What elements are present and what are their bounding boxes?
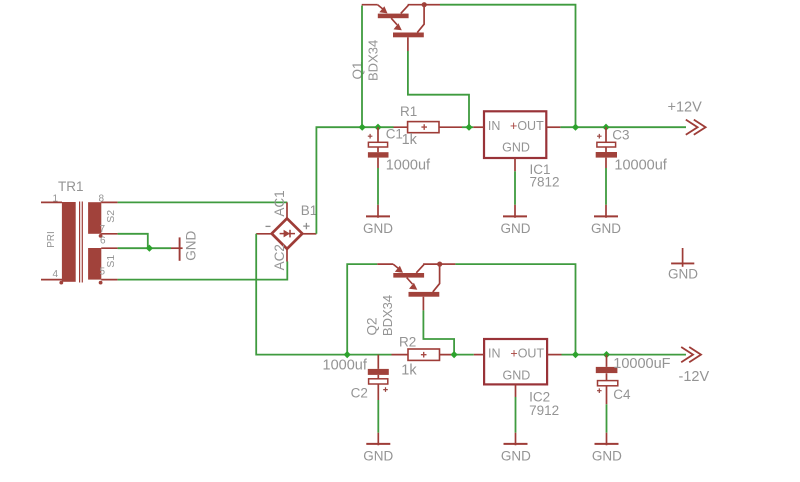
capacitor C3 (596, 127, 668, 173)
svg-text:10000uF: 10000uF (613, 356, 670, 372)
svg-text:GND: GND (363, 221, 393, 236)
C1 plus (368, 134, 373, 139)
label plus (303, 223, 309, 229)
C4 plate negative (596, 367, 618, 373)
svg-text:1000uf: 1000uf (386, 157, 431, 173)
wire Q2 base to R2 right node (423, 310, 454, 354)
wire C4 to ground (606, 404, 608, 432)
svg-text:TR1: TR1 (58, 179, 84, 194)
ground GND below C2 (363, 433, 393, 464)
svg-text:+OUT: +OUT (510, 119, 544, 133)
svg-text:7912: 7912 (529, 403, 559, 418)
svg-text:GND: GND (363, 448, 393, 463)
B1 internal diode (280, 233, 295, 235)
bridge rectifier B1 (256, 190, 317, 270)
Q1 collector T2 (417, 6, 424, 33)
transistor Q2 BDX34 (365, 262, 456, 337)
C2 plus (383, 387, 388, 392)
svg-text:+OUT: +OUT (510, 346, 544, 360)
wire Q2 collector run (455, 264, 575, 355)
junction IC1 out (572, 124, 579, 131)
TR1 pin 1 (41, 201, 62, 203)
capacitor C2 (323, 355, 389, 401)
C2 plate negative (368, 369, 389, 375)
Q2 emitter arrow (393, 264, 399, 269)
Q2 internal arrow T2 (407, 278, 413, 285)
svg-text:C1: C1 (386, 126, 403, 141)
C1 plate negative (368, 152, 389, 157)
TR1 core (80, 202, 83, 283)
svg-text:AC1: AC1 (272, 190, 287, 216)
wire pin5 to bridge AC2 (118, 262, 288, 280)
Q1 base bar T2 (393, 33, 424, 38)
B1 pin AC1 (286, 202, 288, 219)
TR1 pin 4 (41, 279, 62, 281)
svg-text:BDX34: BDX34 (380, 295, 395, 336)
svg-text:4: 4 (53, 269, 59, 280)
wire Q1 emitter to +rail (361, 6, 363, 128)
ground GND below IC2 (501, 433, 531, 464)
junction IC2 out (572, 351, 579, 358)
TR1 pin 6 (101, 247, 117, 249)
svg-text:IN: IN (488, 119, 501, 133)
svg-text:GND: GND (501, 221, 531, 236)
svg-text:GND: GND (668, 266, 698, 281)
C2 plate positive (369, 379, 388, 384)
wire C2 to ground (377, 400, 379, 433)
wire pin6 to GND (118, 247, 171, 249)
svg-text:GND: GND (501, 448, 531, 463)
TR1 secondary winding S1 (88, 248, 101, 280)
svg-text:BDX34: BDX34 (366, 40, 381, 81)
junction C3 rail (602, 124, 609, 131)
junction Q1 emitter rail (359, 124, 366, 131)
Q2 base bar T1 (393, 273, 424, 278)
wire IC2 gnd (515, 397, 517, 433)
TR1 secondary winding S2 (88, 202, 101, 234)
capacitor C1 (368, 126, 431, 173)
junction C1 rail (374, 124, 381, 131)
polarity dot primary (59, 281, 63, 285)
wire Q1 base to R1 right node (408, 51, 469, 127)
ground GND center tap (171, 231, 198, 261)
TR1 primary winding (62, 202, 76, 282)
ground GND below IC1 (501, 205, 531, 236)
svg-text:C3: C3 (612, 128, 629, 143)
Q2 collector T2 (433, 265, 440, 292)
svg-text:S2: S2 (105, 210, 117, 223)
Q2 base bar T2 (409, 292, 440, 297)
svg-text:6: 6 (100, 236, 106, 247)
IC1 pin OUT (546, 126, 560, 128)
svg-text:R2: R2 (399, 335, 416, 350)
svg-text:PRI: PRI (46, 231, 57, 248)
Q1 collector pin (424, 4, 440, 6)
wire pin7 to center tap (118, 234, 148, 248)
junction C4 rail (603, 351, 610, 358)
junction R1 right (465, 124, 472, 131)
C3 plate positive (597, 142, 616, 147)
wire +rail IC1 to C3 to arrow (560, 126, 686, 128)
wire -rail IC2 to C4 to arrow (562, 354, 687, 356)
junction R2 right (451, 351, 458, 358)
svg-text:S1: S1 (105, 255, 117, 268)
IC2 pin IN (474, 354, 484, 356)
svg-text:7: 7 (100, 224, 106, 235)
resistor R2 (392, 335, 454, 379)
label minus (266, 225, 271, 227)
svg-text:1000uf: 1000uf (323, 357, 368, 373)
wire +rail R1 to IC1 (462, 126, 473, 128)
wire Q1 collector top run (440, 5, 576, 128)
wire C3 to ground (605, 168, 607, 205)
C4 plate positive (598, 381, 618, 386)
C4 plus (597, 388, 602, 393)
svg-text:GND: GND (503, 368, 531, 382)
transformer TR1 (41, 179, 118, 285)
IC1 pin IN (473, 126, 484, 128)
Q1 collector junction dot (422, 2, 427, 7)
B1 pin minus (256, 233, 272, 235)
IC1 pin GND (514, 158, 516, 171)
C3 plus (597, 134, 602, 139)
Q2 base pin (422, 297, 424, 311)
svg-text:10000uf: 10000uf (614, 158, 667, 174)
output arrow -12V (679, 347, 710, 385)
voltage regulator IC1 7812 (473, 111, 560, 189)
wire pin8 to bridge AC1 (118, 201, 288, 203)
Q1 base pin (407, 37, 409, 51)
ground GND below C3 (591, 205, 621, 236)
junction Q2 emitter rail (344, 351, 351, 358)
IC2 pin OUT (547, 354, 561, 356)
svg-text:C2: C2 (351, 386, 368, 401)
svg-text:+12V: +12V (668, 100, 703, 116)
wire B1 plus up to +rail (316, 127, 393, 234)
Q1 base bar T1 (378, 14, 409, 19)
C3 plate negative (596, 152, 617, 158)
transistor Q1 BDX34 (350, 2, 440, 81)
ground GND below C4 (592, 433, 622, 464)
Q1 collector T1 (401, 5, 424, 14)
svg-text:R1: R1 (400, 104, 417, 119)
svg-text:-12V: -12V (679, 369, 710, 385)
capacitor C4 (596, 355, 671, 405)
svg-text:Q2: Q2 (365, 317, 380, 335)
B1 pin plus (302, 233, 317, 235)
Q2 emitter pin (377, 263, 393, 265)
C1 plate positive (368, 142, 387, 147)
svg-text:8: 8 (99, 194, 105, 205)
TR1 pin 8 (101, 201, 117, 203)
wire Q2 emitter branch (347, 264, 377, 355)
Q2 collector pin (440, 263, 456, 265)
wire B1 minus down to -rail (256, 234, 391, 355)
voltage regulator IC2 7912 (474, 339, 562, 418)
IC2 pin GND (515, 384, 517, 397)
polarity dot S2 (99, 234, 103, 238)
svg-text:7812: 7812 (530, 175, 560, 190)
junction center tap (146, 245, 153, 252)
svg-text:GND: GND (592, 448, 622, 463)
Q2 collector junction dot (437, 262, 442, 267)
TR1 pin 7 (101, 233, 117, 235)
svg-text:C4: C4 (613, 387, 631, 402)
svg-text:B1: B1 (301, 203, 318, 218)
svg-text:GND: GND (183, 231, 198, 261)
svg-text:IN: IN (488, 346, 501, 360)
Q1 emitter pin (362, 4, 378, 6)
svg-text:1: 1 (53, 194, 59, 205)
Q1 emitter arrow (378, 5, 384, 10)
wire -rail R2 to IC2 (454, 354, 474, 356)
resistor R1 (394, 104, 463, 148)
polarity dot S1 (99, 281, 103, 285)
TR1 pin 5 (101, 279, 117, 281)
svg-text:GND: GND (591, 221, 621, 236)
wire C1 to ground (377, 168, 379, 205)
svg-text:5: 5 (100, 267, 106, 278)
Q2 collector T1 (416, 264, 439, 273)
ground GND below C1 (363, 205, 393, 236)
B1 pin AC2 (286, 248, 288, 262)
svg-text:AC2: AC2 (272, 244, 287, 270)
Q1 internal arrow T2 (391, 18, 397, 25)
svg-text:1k: 1k (401, 363, 417, 379)
wire IC1 gnd (514, 171, 516, 205)
svg-text:1k: 1k (402, 132, 418, 148)
ground GND isolated (668, 248, 698, 281)
svg-text:GND: GND (502, 140, 530, 154)
output arrow +12V (668, 100, 706, 135)
